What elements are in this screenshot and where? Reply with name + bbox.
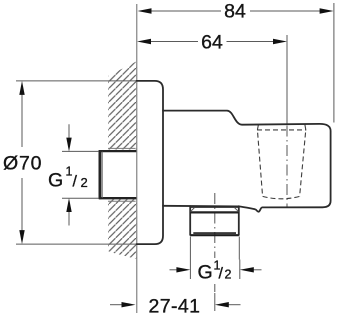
dim O70 arrow down: [19, 230, 24, 244]
dim 84 arrow right: [320, 8, 334, 13]
dim G1/2 left arrow down: [68, 124, 70, 138]
svg-text:2: 2: [225, 268, 232, 282]
outlet extension lines to G1/2: [190, 237, 239, 260]
svg-text:/: /: [73, 174, 78, 191]
dim O70 extension top: [16, 80, 137, 82]
dim 64 right extension line: [286, 35, 288, 124]
svg-text:84: 84: [224, 1, 246, 23]
dim G1/2 bottom arrow left: [170, 269, 178, 271]
dim G1/2 bottom arrow right: [254, 269, 262, 271]
hidden cone dashed: [257, 125, 306, 199]
dim 27-41 arrow left: [110, 304, 122, 306]
dim 84 arrow left: [138, 8, 152, 13]
dim 64 arrow right: [273, 39, 287, 44]
flange (escutcheon): [137, 81, 164, 244]
dim O70 line: [21, 95, 23, 232]
dim 64 arrow left: [137, 39, 151, 44]
dim 84 right extension line: [333, 3, 335, 123]
inlet nipple left edge double: [99, 150, 102, 199]
wall face line: [136, 4, 138, 313]
inlet nipple top edge: [99, 150, 136, 152]
dim O70 extension bottom: [16, 243, 157, 245]
dim G1/2 left ext lines: [62, 151, 99, 198]
inlet nipple mask: [98, 150, 135, 200]
centerline outlet axis: [214, 193, 216, 258]
dim G1/2 left arrow up: [68, 212, 70, 226]
svg-text:G: G: [198, 262, 213, 284]
inlet nipple bottom edge: [99, 197, 136, 199]
centerline holder axis: [286, 126, 288, 208]
svg-text:Ø70: Ø70: [3, 153, 42, 175]
dim 27-41 arrow right: [228, 304, 241, 306]
svg-text:G: G: [48, 170, 63, 192]
outlet nipple bottom thick edge: [190, 234, 238, 236]
svg-text:/: /: [219, 266, 224, 283]
dim 64 line: [151, 41, 275, 43]
dim G1/2 bottom ext lines: [190, 260, 239, 280]
outlet nipple: [190, 206, 239, 235]
dim 84 line: [151, 10, 322, 12]
svg-text:1: 1: [66, 164, 73, 178]
outlet nipple chamfer corners: [191, 208, 239, 212]
dim O70 arrow up: [19, 81, 24, 95]
svg-text:64: 64: [201, 32, 223, 54]
svg-text:2: 2: [81, 175, 88, 190]
svg-text:27-41: 27-41: [149, 296, 201, 318]
wall hole edge faint lines: [108, 148, 136, 201]
body + holder outline: [163, 111, 331, 212]
